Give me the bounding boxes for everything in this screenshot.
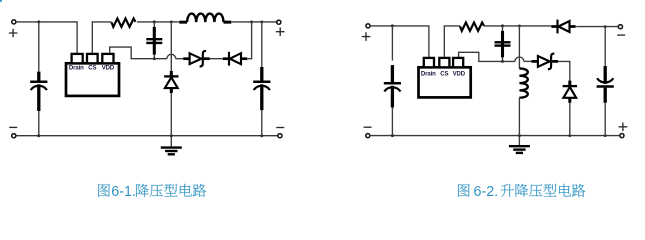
svg-text:Drain: Drain [421, 71, 436, 77]
svg-text:CS: CS [88, 66, 96, 72]
svg-text:6-1.: 6-1. [111, 184, 136, 200]
svg-text:6-2.: 6-2. [474, 184, 499, 200]
svg-text:CS: CS [440, 71, 448, 77]
svg-text:VDD: VDD [453, 71, 466, 77]
svg-text:Drain: Drain [69, 66, 84, 72]
svg-text:VDD: VDD [102, 66, 115, 72]
